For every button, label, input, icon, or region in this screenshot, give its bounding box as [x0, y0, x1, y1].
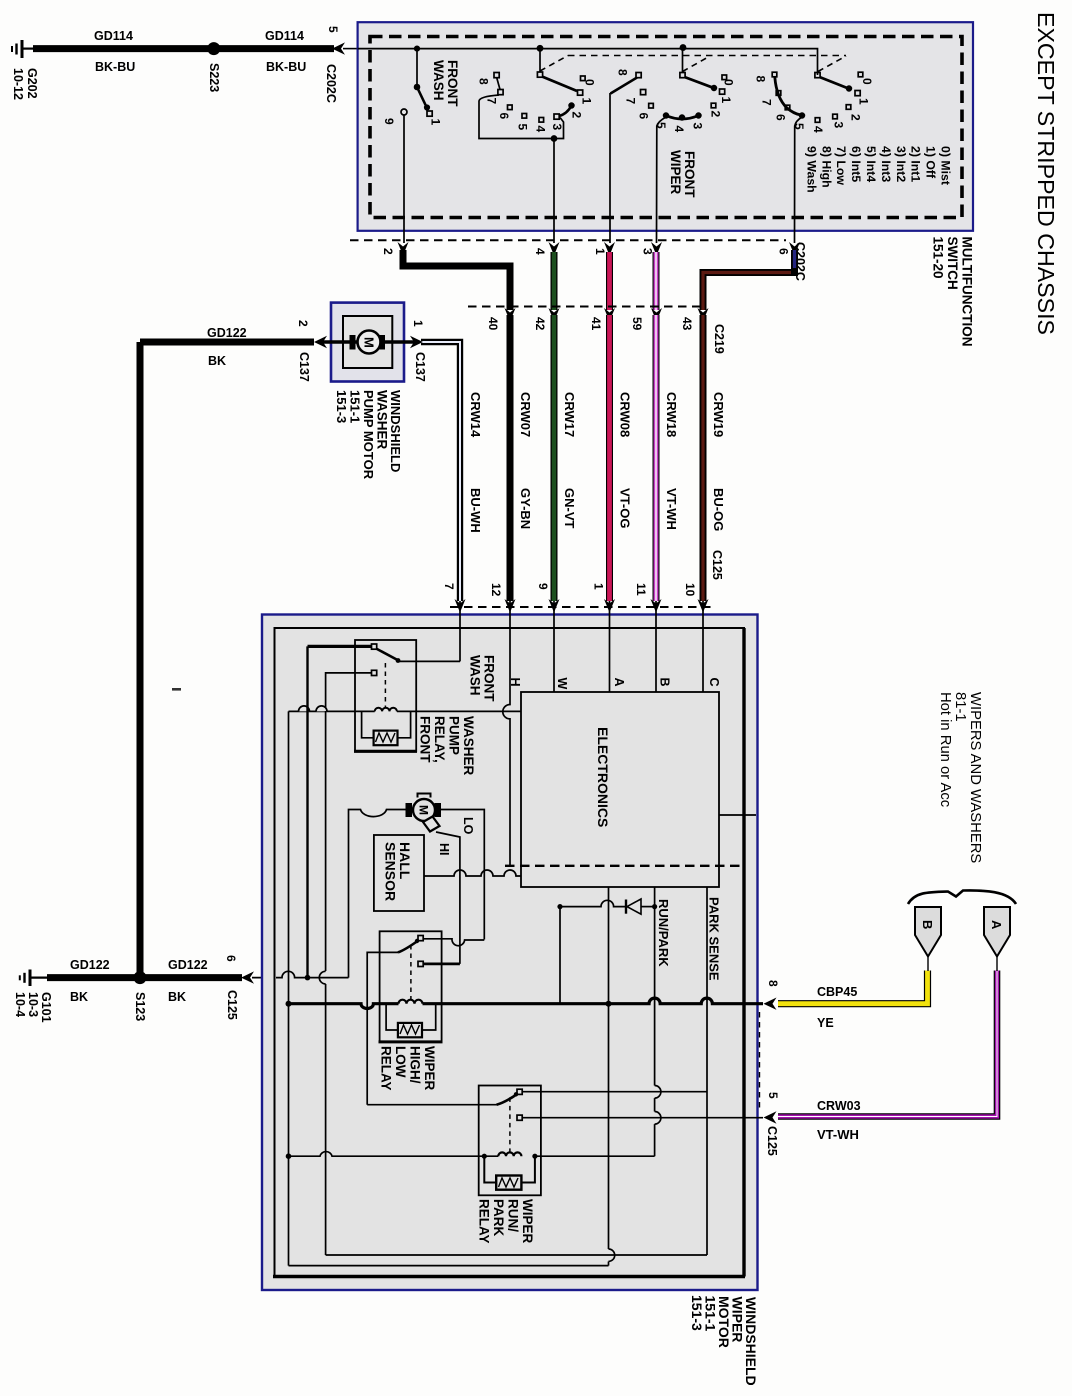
svg-text:CRW14: CRW14	[468, 392, 483, 438]
svg-text:C137: C137	[297, 352, 311, 382]
linkage dashed rail	[568, 55, 846, 57]
connector C137 pin 2 arrow	[314, 336, 327, 348]
wiper run park relay box	[479, 1086, 541, 1196]
C125 arrows pins 7 12 9 1 11 10	[455, 599, 709, 613]
linkage diagonal S2	[540, 56, 568, 72]
HL relay upper contact	[418, 936, 423, 941]
svg-text:FRONT: FRONT	[445, 60, 460, 107]
svg-text:7) Low: 7) Low	[834, 146, 848, 185]
linkage diagonal S4	[818, 56, 846, 72]
wire GD114 left	[33, 45, 213, 52]
wire motor left to ground rail	[349, 810, 406, 978]
svg-text:8: 8	[616, 69, 630, 76]
svg-text:81-1: 81-1	[952, 692, 968, 722]
multifunction switch box	[358, 22, 973, 231]
svg-text:6: 6	[774, 114, 788, 121]
svg-text:5: 5	[326, 26, 340, 33]
motor M1 symbol	[350, 335, 356, 350]
svg-text:1: 1	[580, 98, 594, 105]
wire GD122 vertical	[137, 342, 144, 978]
svg-text:WASH: WASH	[468, 655, 483, 696]
svg-text:RELAY: RELAY	[477, 1199, 492, 1244]
svg-text:C125: C125	[225, 990, 239, 1020]
svg-text:4: 4	[533, 248, 547, 255]
svg-text:VT-WH: VT-WH	[817, 1127, 859, 1142]
bottom wire 1	[326, 1254, 707, 1256]
svg-text:151-20: 151-20	[931, 237, 946, 279]
vertical diode left to bus	[559, 907, 561, 1004]
svg-text:B: B	[920, 920, 935, 929]
wire CRW03 violet	[778, 971, 997, 1117]
svg-text:CRW19: CRW19	[711, 392, 726, 437]
svg-text:GY-BN: GY-BN	[518, 488, 533, 529]
svg-text:40: 40	[486, 317, 500, 331]
svg-text:BK: BK	[168, 990, 186, 1004]
svg-text:9: 9	[382, 118, 396, 125]
diode wire	[560, 900, 626, 906]
svg-text:C: C	[707, 678, 721, 687]
svg-text:FRONT: FRONT	[682, 151, 697, 198]
wire CRW17 42 to 9 (green)	[551, 315, 558, 601]
svg-text:6: 6	[637, 113, 651, 120]
HL relay arm	[398, 940, 419, 952]
wire CRW17 pin4 to 42 (green)	[551, 252, 558, 310]
svg-text:ELECTRONICS: ELECTRONICS	[595, 727, 611, 827]
svg-text:3) Int2: 3) Int2	[894, 146, 908, 182]
svg-text:0: 0	[860, 78, 874, 85]
C202C arrows pins 2 4 1 3 6	[398, 242, 801, 256]
svg-text:4) Int3: 4) Int3	[879, 146, 893, 182]
RP relay resistor	[484, 1156, 496, 1182]
svg-text:7: 7	[624, 98, 638, 105]
ground G101	[20, 970, 48, 987]
svg-text:H: H	[508, 678, 522, 687]
svg-text:1: 1	[719, 97, 733, 104]
washer relay resistor	[362, 711, 374, 737]
RP relay coil	[289, 1152, 499, 1157]
svg-text:M: M	[417, 805, 431, 815]
switch S2 wash rotary	[479, 46, 585, 141]
RUN PARK net vertical	[535, 887, 655, 1156]
ground G202	[12, 40, 34, 58]
RP relay upper contact	[517, 1089, 522, 1094]
svg-text:FRONT: FRONT	[418, 716, 433, 763]
connector C125 pin 5 arrow	[764, 1111, 777, 1123]
svg-text:4: 4	[672, 126, 686, 133]
bracket over connectors	[908, 890, 1016, 904]
connector C125 row dashed line	[450, 606, 712, 608]
svg-text:1: 1	[411, 320, 425, 327]
svg-text:GD122: GD122	[207, 326, 247, 340]
svg-text:CRW18: CRW18	[664, 392, 679, 437]
electronics box	[521, 692, 719, 887]
svg-text:6: 6	[497, 113, 511, 120]
RP relay lower contact wire to pin 5	[522, 1117, 763, 1119]
wire CRW14 motor to pin7 (blue-white)	[421, 342, 460, 601]
hall sensor output wire with hops	[424, 870, 521, 876]
svg-text:RELAY,: RELAY,	[432, 716, 447, 763]
splice S123	[134, 971, 147, 984]
wire S3 contact5 to pin3	[657, 117, 667, 243]
svg-text:VT-OG: VT-OG	[618, 488, 633, 528]
wire CRW07 step pin2 to 40 (black)	[403, 250, 510, 310]
svg-text:GD114: GD114	[265, 29, 304, 43]
vertical electronics to bus junction	[608, 887, 610, 1004]
svg-text:RUN/: RUN/	[506, 1199, 521, 1232]
svg-text:1: 1	[593, 248, 607, 255]
wires pins into box	[459, 601, 461, 661]
svg-text:LO: LO	[461, 817, 475, 835]
svg-text:S123: S123	[133, 992, 147, 1021]
svg-text:59: 59	[630, 317, 644, 331]
power bus thick	[289, 998, 764, 1008]
wire arm to FRONT WASH	[399, 660, 460, 662]
svg-text:1: 1	[429, 119, 443, 126]
svg-text:S223: S223	[207, 63, 221, 92]
svg-text:7: 7	[760, 99, 774, 106]
svg-text:C202C: C202C	[324, 64, 338, 103]
svg-text:VT-WH: VT-WH	[664, 488, 679, 530]
wire S3 contact8 to pin1	[609, 93, 611, 243]
svg-text:8: 8	[766, 980, 780, 987]
washer relay arm	[377, 649, 399, 661]
svg-text:151-3: 151-3	[334, 390, 349, 423]
wire GD122 ground to splice	[47, 974, 140, 981]
svg-text:2: 2	[570, 112, 584, 119]
svg-text:C219: C219	[712, 324, 726, 354]
svg-text:Hot in Run or Acc: Hot in Run or Acc	[937, 692, 953, 808]
wire GD122 motor to splice	[140, 339, 314, 346]
wire CRW08 pin1 to 41 (crimson)	[606, 252, 613, 310]
svg-text:BK: BK	[70, 990, 88, 1004]
svg-text:7: 7	[442, 583, 456, 590]
RP relay arm wire left	[367, 1104, 496, 1106]
svg-text:FRONT: FRONT	[482, 655, 497, 702]
svg-text:SWITCH: SWITCH	[945, 237, 960, 290]
wire CRW18 pin3 to 59 (violet-white)	[653, 252, 660, 310]
linkage diagonal S3	[683, 56, 711, 72]
svg-text:EXCEPT STRIPPED CHASSIS: EXCEPT STRIPPED CHASSIS	[1033, 12, 1059, 335]
RP relay pivot wire right	[522, 1091, 707, 1093]
connector C137 pin 1 arrow	[410, 336, 423, 348]
C125 dashed link	[759, 1012, 761, 1110]
svg-text:G202: G202	[25, 68, 39, 99]
washer pump relay FRONT box	[355, 640, 416, 751]
svg-text:BU-WH: BU-WH	[468, 488, 483, 533]
svg-text:1: 1	[857, 98, 871, 105]
svg-text:A: A	[612, 678, 626, 687]
wiper high low relay box	[380, 931, 442, 1042]
svg-text:W: W	[555, 678, 569, 690]
washer relay lower contact	[372, 670, 377, 675]
svg-text:CRW08: CRW08	[618, 392, 633, 437]
wire lower contact to rail C	[326, 673, 372, 711]
svg-text:43: 43	[680, 317, 694, 331]
svg-text:3: 3	[691, 123, 705, 130]
svg-text:BK-BU: BK-BU	[266, 60, 306, 74]
svg-text:WIPER: WIPER	[668, 150, 683, 195]
wiper motor M2 symbol	[418, 794, 431, 798]
svg-text:11: 11	[634, 583, 648, 596]
HL relay linkage dashed	[410, 945, 412, 999]
svg-text:3: 3	[550, 124, 564, 131]
hall sensor box	[374, 835, 424, 911]
svg-text:2: 2	[849, 114, 863, 121]
svg-text:4: 4	[811, 126, 825, 133]
wire S2 bracket to pin4	[553, 139, 555, 244]
svg-text:CBP45: CBP45	[817, 985, 857, 999]
svg-text:3: 3	[641, 248, 655, 255]
wiper motor box outer	[262, 615, 758, 1291]
svg-text:9) Wash: 9) Wash	[804, 146, 818, 193]
rail A coil feed	[288, 711, 290, 1265]
svg-text:12: 12	[489, 583, 503, 597]
washer pump motor wire through	[318, 340, 415, 344]
svg-text:8) High: 8) High	[819, 146, 833, 188]
svg-text:CRW07: CRW07	[518, 392, 533, 437]
svg-text:9: 9	[536, 583, 550, 590]
svg-text:5: 5	[516, 124, 530, 131]
svg-text:WIPER: WIPER	[422, 1046, 437, 1091]
connector C202C pin 5	[332, 42, 345, 54]
rail C	[325, 711, 327, 1255]
svg-text:BK-BU: BK-BU	[95, 60, 135, 74]
C219 arrows pins 40 42 41 59 43	[505, 308, 709, 322]
svg-text:0) Mist: 0) Mist	[939, 146, 953, 185]
wire S1 contact9 to pin2	[403, 115, 405, 243]
svg-text:8: 8	[754, 76, 768, 83]
svg-text:CRW03: CRW03	[817, 1099, 861, 1113]
svg-text:5: 5	[766, 1092, 780, 1099]
svg-text:7: 7	[485, 98, 499, 105]
svg-text:2) Int1: 2) Int1	[909, 146, 923, 182]
svg-text:PARK: PARK	[491, 1199, 506, 1237]
motor shaft	[423, 817, 440, 832]
svg-text:A: A	[989, 920, 1004, 930]
svg-text:8: 8	[477, 78, 491, 85]
scan artifact dash	[172, 688, 181, 691]
connector C219 row dashed line	[468, 306, 700, 308]
wire CRW18 59 to 11 (violet-white)	[653, 315, 660, 601]
svg-text:WASHER: WASHER	[461, 716, 476, 776]
HL relay lower contact	[418, 961, 423, 966]
svg-text:HIGH/: HIGH/	[408, 1046, 423, 1084]
svg-text:RUN/PARK: RUN/PARK	[656, 899, 671, 967]
svg-text:GD114: GD114	[94, 29, 133, 43]
RP relay lower contact	[517, 1115, 522, 1120]
svg-text:SENSOR: SENSOR	[383, 842, 399, 901]
svg-text:LOW: LOW	[393, 1046, 408, 1078]
connector B	[915, 907, 941, 957]
svg-text:HI: HI	[437, 843, 451, 856]
svg-text:151-3: 151-3	[689, 1295, 705, 1331]
connector C125 pin 6	[241, 971, 254, 983]
svg-text:MULTIFUNCTION: MULTIFUNCTION	[960, 237, 975, 347]
svg-text:5: 5	[792, 123, 806, 130]
washer pump motor box	[331, 303, 404, 382]
svg-text:YE: YE	[817, 1016, 834, 1030]
link electronics right edge to box border	[719, 814, 756, 816]
washer relay coil	[289, 710, 375, 712]
svg-text:6) Int5: 6) Int5	[849, 146, 863, 182]
wire CRW07 40 to 12 (black)	[507, 315, 514, 601]
connector C202C row dashed line	[350, 239, 786, 241]
HL relay lower contact wire to HI	[423, 963, 460, 966]
svg-text:6: 6	[777, 248, 791, 255]
vertical 608 below bus to bottom	[608, 1004, 610, 1266]
bottom wire 2	[289, 1265, 609, 1267]
RP relay arm	[497, 1094, 519, 1105]
washer relay upper contact	[372, 644, 377, 649]
connector A	[984, 907, 1010, 957]
svg-text:B: B	[658, 678, 672, 687]
HL relay arm wire left	[367, 952, 398, 1104]
svg-text:M: M	[362, 337, 377, 348]
wire motor right LO	[441, 810, 484, 940]
svg-text:WIPERS AND WASHERS: WIPERS AND WASHERS	[967, 692, 983, 863]
svg-text:1: 1	[592, 583, 606, 590]
switch S4 wiper rotary	[772, 72, 863, 122]
rail B ground feed	[306, 646, 308, 977]
svg-text:BU-OG: BU-OG	[711, 488, 726, 531]
svg-text:0: 0	[583, 79, 597, 86]
svg-text:WIPER: WIPER	[520, 1199, 535, 1244]
svg-text:0: 0	[722, 79, 736, 86]
HL relay resistor	[386, 1004, 398, 1030]
wire GD114 right	[213, 45, 334, 52]
svg-text:6: 6	[224, 955, 238, 962]
svg-text:2: 2	[381, 248, 395, 255]
svg-text:WASH: WASH	[431, 60, 446, 101]
svg-text:BK: BK	[208, 354, 226, 368]
svg-text:10-12: 10-12	[11, 68, 25, 100]
svg-text:2: 2	[709, 111, 723, 118]
svg-text:C137: C137	[413, 352, 427, 382]
svg-text:PUMP: PUMP	[447, 716, 462, 755]
svg-text:GN-VT: GN-VT	[562, 488, 577, 529]
svg-text:42: 42	[533, 317, 547, 331]
switch feed wire	[358, 49, 818, 75]
electronics internal dashed	[505, 865, 744, 867]
RP relay linkage dashed	[509, 1097, 511, 1152]
wire CBP45 yellow	[778, 971, 928, 1004]
HL relay coil on bus	[399, 1000, 423, 1004]
washer relay linkage dashed	[384, 663, 386, 707]
svg-text:PARK SENSE: PARK SENSE	[707, 897, 722, 981]
svg-text:10: 10	[683, 583, 697, 597]
svg-text:C125: C125	[765, 1126, 779, 1156]
svg-text:41: 41	[589, 317, 603, 331]
HL relay contact wire to LO with dip hop	[423, 939, 484, 946]
svg-text:4: 4	[534, 126, 548, 133]
switch S3 FRONT WIPER	[611, 45, 727, 120]
svg-text:5) Int4: 5) Int4	[864, 146, 878, 182]
svg-text:10-4: 10-4	[13, 992, 27, 1017]
svg-text:RELAY: RELAY	[379, 1046, 394, 1091]
wire CRW08 41 to 1 (crimson)	[606, 315, 613, 601]
svg-text:2: 2	[296, 320, 310, 327]
svg-text:1) Off: 1) Off	[924, 146, 938, 179]
svg-text:GD122: GD122	[168, 958, 208, 972]
switch S1 FRONT WASH	[401, 46, 432, 116]
svg-text:G101: G101	[39, 992, 53, 1023]
connector C125 pin 8 arrow	[764, 998, 777, 1010]
wire CRW19 43 to 10 (blue-orange)	[700, 315, 707, 601]
wire GD122 splice to pin6	[140, 974, 242, 981]
ground wire inside box with hop over rail A	[276, 971, 349, 977]
svg-text:3: 3	[832, 122, 846, 129]
splice S223	[207, 42, 220, 55]
washer relay feed wire (thick)	[308, 645, 373, 648]
wire S4 contact5 to pin6	[795, 117, 803, 243]
wire motor shaft HI	[436, 832, 460, 964]
svg-text:5: 5	[654, 122, 668, 129]
wire CRW19 step pin6 to 43 (blue-orange)	[703, 250, 795, 310]
svg-text:10-3: 10-3	[26, 992, 40, 1017]
wiper motor box inner	[275, 628, 745, 1277]
svg-text:GD122: GD122	[70, 958, 110, 972]
svg-text:CRW17: CRW17	[562, 392, 577, 437]
diode D1	[625, 900, 627, 914]
svg-text:C125: C125	[710, 550, 724, 580]
PARK SENSE net vertical	[706, 887, 708, 1255]
